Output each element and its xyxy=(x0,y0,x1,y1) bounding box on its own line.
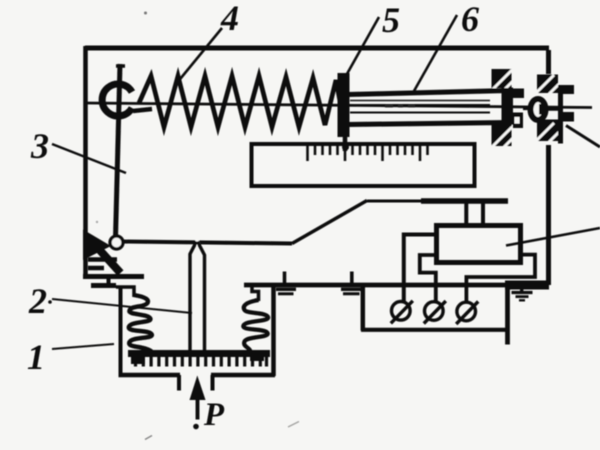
svg-text:P: P xyxy=(203,397,225,433)
svg-text:4: 4 xyxy=(220,0,239,38)
svg-text:2: 2 xyxy=(28,281,47,321)
svg-text:3: 3 xyxy=(30,126,49,166)
svg-text:5: 5 xyxy=(382,0,400,40)
svg-text:6: 6 xyxy=(461,0,479,39)
svg-text:1: 1 xyxy=(27,337,45,377)
